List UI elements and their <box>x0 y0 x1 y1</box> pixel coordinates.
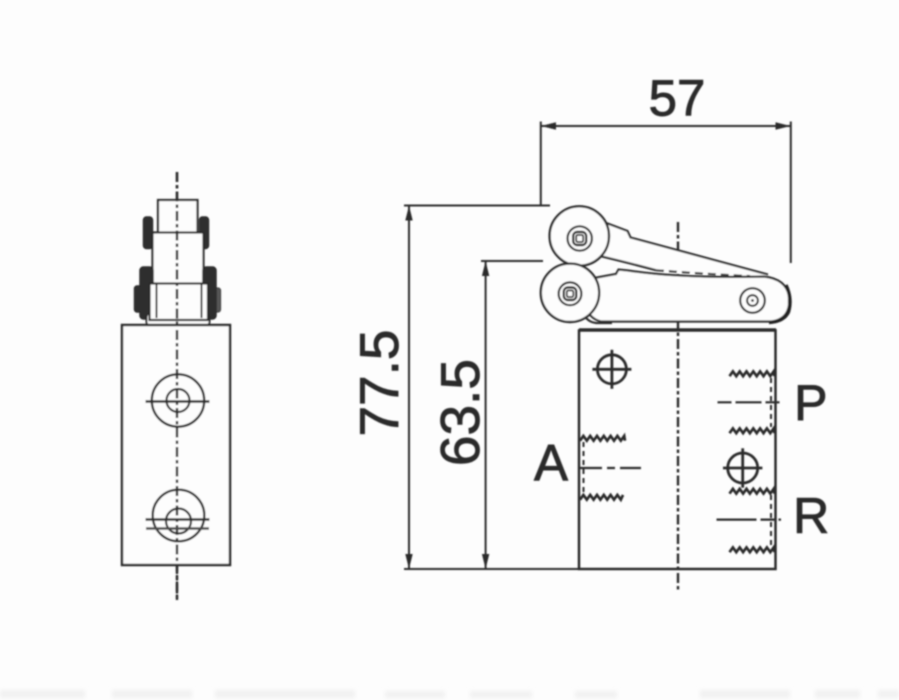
port R mouth dashed <box>770 495 772 545</box>
dim 57 ext right <box>790 122 792 264</box>
pivot screw outer <box>740 288 765 313</box>
bracket base foot <box>147 313 210 326</box>
lower roller wheel <box>541 264 599 322</box>
port P thread hatch bottom <box>730 428 775 433</box>
bottom extension / body bottom line <box>404 568 579 570</box>
upper port circle inner <box>167 389 190 412</box>
lever baseplate / body top <box>579 328 776 330</box>
lower lever arm with right bracket <box>578 270 789 322</box>
mounting hole crosshair upper <box>597 355 626 384</box>
centerline left view <box>176 172 178 600</box>
dim 63.5 arrow top <box>482 261 489 276</box>
dim 57 arrow right <box>776 122 791 129</box>
dim 63.5 arrow bottom <box>482 554 489 569</box>
mounting hole crosshair right <box>728 453 758 483</box>
port P centerline <box>718 401 781 403</box>
upper roller wheel <box>550 206 609 265</box>
dim 77.5 arrow top <box>405 206 412 221</box>
lower roller hub <box>559 282 582 305</box>
dim 77.5 arrow bottom <box>405 554 412 569</box>
upper axle tab right <box>200 217 209 249</box>
lower axle tab left <box>140 267 153 319</box>
faint scan smudge band at bottom <box>0 690 899 698</box>
svg-text:63.5: 63.5 <box>429 359 491 466</box>
port P thread hatch top <box>730 371 775 376</box>
dim 63.5 ext top <box>481 260 543 262</box>
upper roller screw <box>573 232 586 245</box>
port R thread hatch bottom <box>730 547 775 552</box>
port A thread hatch top <box>580 436 625 441</box>
lower roller front block <box>150 284 209 321</box>
upper axle tab left <box>144 217 153 249</box>
lower port chord line <box>146 527 209 529</box>
svg-text:A: A <box>534 435 568 492</box>
svg-text:P: P <box>794 375 827 431</box>
dim 77.5 ext top <box>404 205 550 207</box>
centerline right view <box>677 222 679 592</box>
spring hook <box>769 285 790 323</box>
lower axle outer nub right <box>213 288 221 312</box>
lower axle tab right <box>203 267 216 319</box>
dim 57 arrow left <box>541 122 556 129</box>
dim 63.5 line <box>485 261 487 569</box>
pivot screw inner <box>747 295 758 306</box>
fork inner edge right <box>201 284 203 318</box>
dim 77.5 line <box>408 206 410 570</box>
svg-text:57: 57 <box>649 70 706 127</box>
centerline inside body <box>176 330 178 600</box>
valve body (side) <box>579 331 776 570</box>
upper lever arm <box>566 220 768 278</box>
port P mouth dashed <box>770 378 772 427</box>
svg-text:R: R <box>793 488 829 544</box>
svg-text:77.5: 77.5 <box>348 329 410 436</box>
roller base foot (side) <box>579 292 613 323</box>
lower port horizontal centerline <box>146 518 210 521</box>
port A mouth dashed <box>583 442 585 495</box>
port A thread hatch bottom <box>580 495 623 500</box>
port A centerline <box>580 467 641 469</box>
dim 57 line <box>541 125 791 127</box>
lower roller screw <box>564 288 577 301</box>
lower axle outer nub left <box>135 286 144 312</box>
centerline redraw over bracket <box>176 172 178 330</box>
lower port circle outer <box>153 490 205 542</box>
fork inner edge left <box>156 284 158 318</box>
roller front (top rectangle) <box>158 200 198 233</box>
lower port circle inner <box>166 509 191 534</box>
dim 57 ext left <box>540 122 542 206</box>
upper roller hub <box>568 226 592 250</box>
upper port circle outer <box>152 374 204 426</box>
port R centerline <box>717 518 782 520</box>
valve body (front) <box>122 325 230 565</box>
fork mid block <box>153 233 204 285</box>
port R thread hatch top <box>730 489 775 494</box>
upper roller screw hole <box>576 235 583 242</box>
upper port horizontal centerline <box>146 400 210 403</box>
lower roller screw hole <box>567 291 574 298</box>
pivot screw dot <box>751 299 754 302</box>
